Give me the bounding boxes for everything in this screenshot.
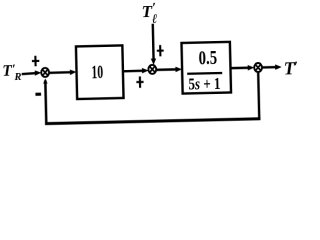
wire S1 to gain block (49, 69, 77, 75)
wire gain block to S2 (123, 68, 149, 74)
svg-text:ℓ: ℓ (152, 11, 158, 26)
wire input arrow into S1 (22, 70, 42, 76)
takeoff junction S3 (254, 63, 262, 72)
svg-text:5s + 1: 5s + 1 (188, 75, 220, 93)
plus sign at S2 left input (136, 76, 143, 88)
wire output arrow (262, 64, 282, 70)
minus sign at S1 (35, 93, 41, 96)
summing junction S1 (41, 68, 49, 77)
wire feedback path left vertical (45, 80, 46, 124)
wire feedback path right vertical (258, 72, 259, 120)
feedback arrowhead into S1 bottom (43, 78, 48, 83)
fraction bar (187, 72, 222, 75)
wire T'L arrow down into S2 (150, 24, 156, 65)
wire S2 to process block (156, 67, 182, 73)
svg-text:0.5: 0.5 (198, 45, 217, 68)
svg-text:T: T (2, 63, 12, 80)
svg-text:′: ′ (294, 59, 298, 75)
node T'R input label (2, 61, 22, 84)
wire feedback path bottom horizontal (45, 119, 260, 124)
plus sign at S1 (32, 56, 40, 67)
block transfer function 0.5 over 5s+1 (182, 42, 232, 94)
node T' output label (283, 58, 298, 78)
svg-text:10: 10 (91, 63, 103, 84)
plus sign at S2 top input (157, 45, 164, 56)
wire process block to S3 (230, 65, 254, 71)
svg-text:R: R (13, 72, 21, 83)
node T'L disturbance label (141, 0, 157, 26)
block gain 10 (76, 45, 124, 99)
summing junction S2 (148, 65, 156, 74)
